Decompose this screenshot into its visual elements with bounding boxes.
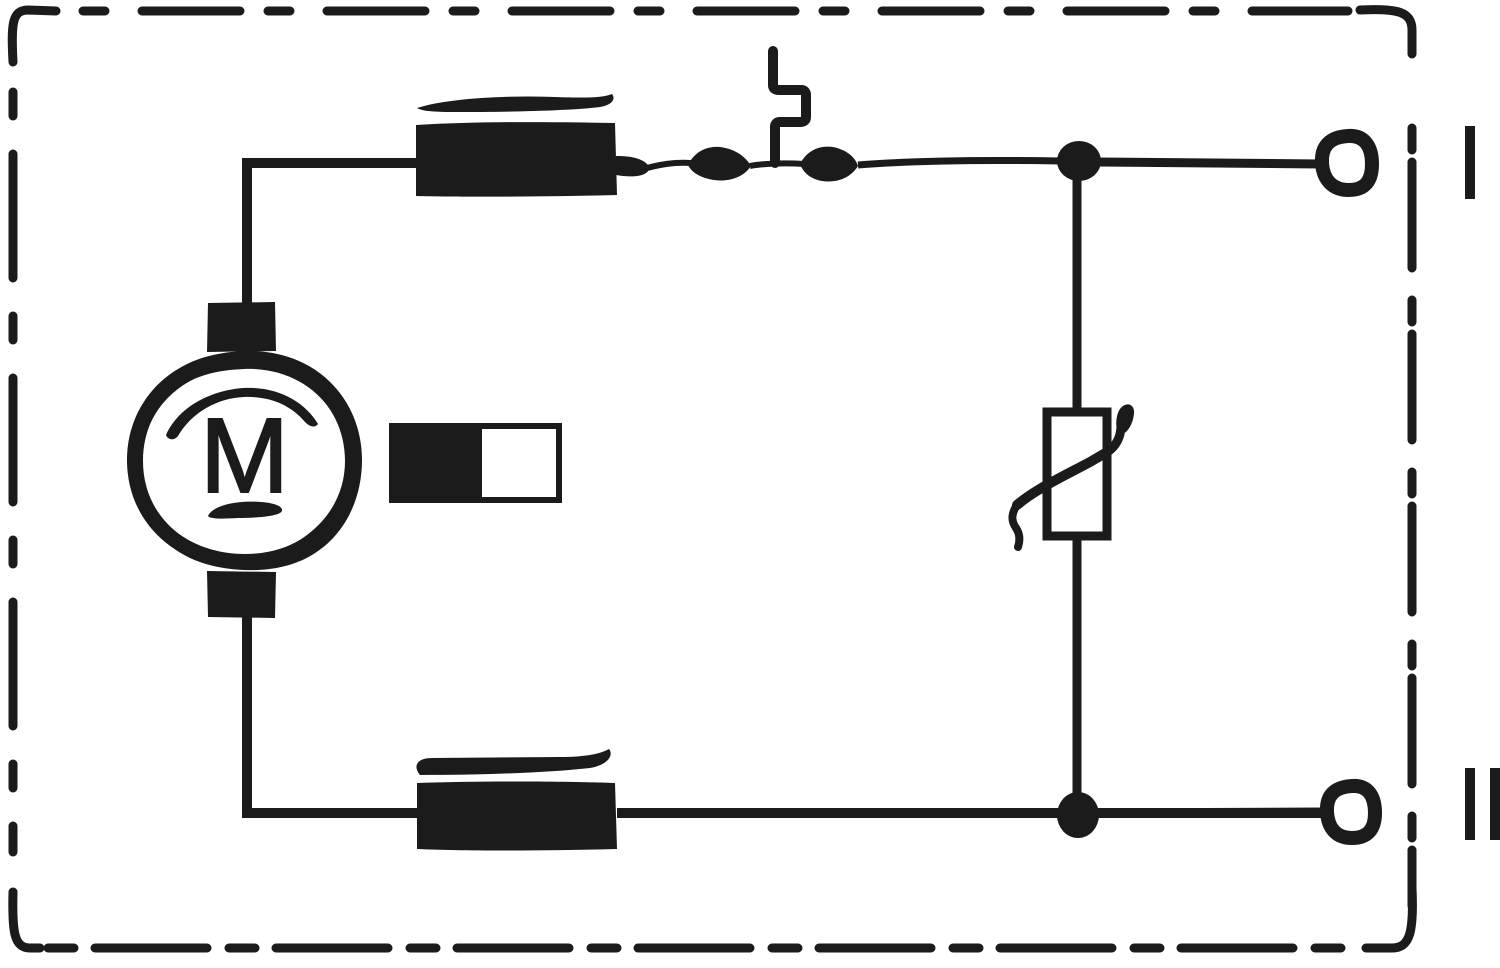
shield line above choke L1 [417, 94, 614, 112]
node A (top junction dot) [1057, 141, 1101, 181]
capacitor C1 window [482, 429, 556, 497]
wire: choke L2 to node B (bottom run) [617, 808, 1324, 818]
wire: motor bottom terminal down and right to choke L2 [247, 615, 417, 813]
wire: choke L1 to thermal switch contact [616, 156, 649, 176]
capacitor C1 (suppression capacitor, half-filled box) [389, 423, 562, 503]
wire: switch to node A [858, 160, 1060, 165]
motor M underline [208, 502, 282, 519]
node B (bottom junction dot) [1057, 792, 1099, 838]
choke L1 (top suppression choke, filled rectangle) [416, 122, 617, 197]
terminal II (connector eyelet) [1327, 786, 1375, 838]
PTC resistor R2 lower foot hook [1012, 505, 1019, 547]
terminal I (connector eyelet) [1322, 136, 1372, 190]
PTC resistor R2 (rectangle) [1047, 412, 1107, 536]
wire: node B to terminal II [1099, 812, 1324, 813]
label I [1465, 126, 1475, 199]
motor M1 body (stator ring, hand drawn) [127, 351, 362, 570]
wire: PTC resistor down to node B [1073, 536, 1082, 800]
motor brush (bottom) [207, 571, 276, 618]
svg-text:M: M [200, 397, 289, 515]
thermal-switch bimetal arm (stepped actuator) [773, 51, 806, 163]
motor brush (top) [207, 302, 276, 352]
thermal-switch moving contact (right blob) [800, 147, 858, 182]
label II [1465, 768, 1475, 840]
wire: between switch contacts [750, 163, 804, 166]
wire: node A down to PTC resistor [1073, 165, 1082, 412]
shield line above choke L2 [416, 749, 610, 775]
wire: node A to terminal I [1098, 162, 1320, 164]
wire: motor top terminal up and right to choke L1 [247, 163, 420, 305]
PTC resistor R2 upper arm with hook [1106, 428, 1121, 453]
motor M1 inner arc [166, 388, 318, 439]
thermal-switch fixed contact (left blob) [688, 147, 751, 181]
choke L2 (bottom suppression choke, filled rectangle) [417, 782, 617, 851]
PTC resistor R2 diagonal stroke [1017, 452, 1107, 505]
